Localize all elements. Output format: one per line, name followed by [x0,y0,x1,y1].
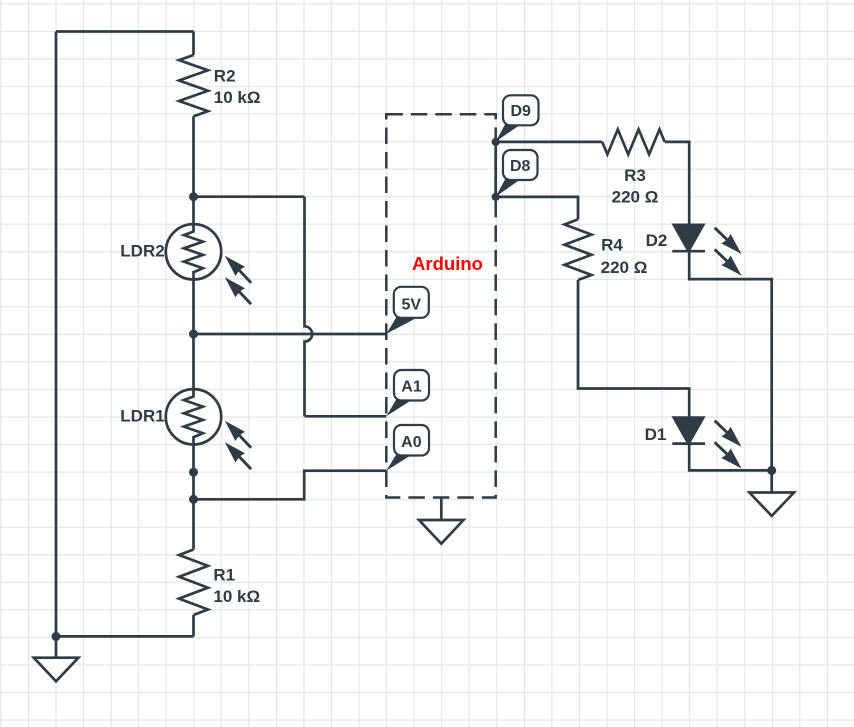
ground bottom right [749,470,794,516]
svg-text:10 kΩ: 10 kΩ [213,587,260,606]
wire R4 to LED D1 [578,280,689,418]
wire R1 to bottom rail [192,615,195,636]
wire pin D9 to pin D8 [494,142,497,197]
svg-text:LDR1: LDR1 [120,407,164,426]
svg-text:D2: D2 [646,231,668,250]
LDR2 light arrow 2 [225,277,251,304]
svg-text:R3: R3 [624,166,646,185]
pin label A1 [386,370,429,416]
node pin D9 junction [492,138,500,146]
photoresistor LDR2 [166,224,221,279]
svg-text:5V: 5V [402,297,422,314]
wire LDR2 to node B [192,279,195,334]
wire LED D1 to right rail node [689,444,772,471]
svg-text:220 Ω: 220 Ω [612,188,659,207]
svg-text:220 Ω: 220 Ω [601,258,648,277]
node C junction [189,468,198,477]
wire top rail [56,30,194,33]
resistor R2 [179,55,208,116]
wire R2 to node A [192,116,195,196]
resistor R4 [565,219,592,280]
pin label D8 [496,150,538,197]
LED D2 light arrow 2 [715,249,742,275]
wire node B to pin 5V [194,333,387,336]
wire pin D9 to R3 [496,141,603,144]
LED D1 light arrow 2 [715,442,742,468]
LED D2 [672,225,705,251]
svg-text:LDR2: LDR2 [120,242,164,261]
LED D1 [672,418,705,444]
node B junction [189,330,198,339]
svg-text:R1: R1 [213,566,235,585]
ground bottom left [34,636,79,681]
wire to pin A1 [305,415,387,418]
node pin D8 junction [492,193,500,201]
LDR1 light arrow 2 [225,442,251,469]
svg-text:A1: A1 [401,379,422,396]
node D junction [189,495,198,504]
LDR2 light arrow 1 [225,256,251,283]
wire node B to LDR1 [192,334,195,389]
resistor R3 [602,129,665,154]
wire LED D2 to right rail [689,251,772,470]
svg-text:D1: D1 [645,425,667,444]
LED D2 light arrow 1 [715,228,742,254]
pin label D9 [496,95,539,141]
wire pin D8 to R4 [496,197,578,220]
node right rail junction [767,466,776,475]
wire node A branch to A1 column [194,195,305,198]
node A junction [189,192,198,201]
LDR1 light arrow 1 [225,421,251,448]
wire left rail [55,32,58,637]
node bottom-left junction [52,632,61,641]
svg-text:10 kΩ: 10 kΩ [214,88,261,107]
wire R2 top stub [192,32,195,56]
Arduino dashed box [386,114,495,497]
ground under Arduino [419,498,464,544]
resistor R1 [179,550,208,616]
svg-text:D8: D8 [510,158,531,175]
wire node D to pin A0 [194,471,387,500]
wire A1 column with hop over 5V wire [305,197,313,417]
svg-text:D9: D9 [510,103,531,120]
pin label 5V [386,287,428,334]
wire bottom rail [56,635,194,638]
svg-text:R2: R2 [214,67,236,86]
pin label A0 [386,425,429,471]
wire R3 to LED D2 [665,142,690,225]
svg-text:Arduino: Arduino [412,253,483,274]
svg-text:R4: R4 [601,235,623,254]
wire node A to LDR2 [192,197,195,225]
LED D1 light arrow 1 [715,421,742,447]
svg-text:A0: A0 [401,434,422,451]
photoresistor LDR1 [166,389,221,444]
wire LDR1 to node D [192,444,195,549]
